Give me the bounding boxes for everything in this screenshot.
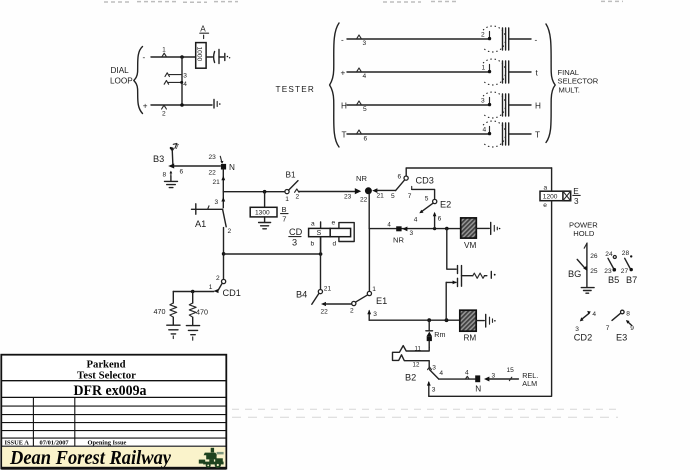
svg-text:3: 3 [432, 387, 436, 394]
svg-text:5: 5 [363, 106, 367, 113]
vertical from NR down to wire B [368, 194, 370, 228]
contact B7 [621, 250, 637, 285]
svg-text:B7: B7 [626, 275, 637, 285]
svg-text:6: 6 [398, 174, 402, 181]
svg-text:07/01/2007: 07/01/2007 [40, 440, 70, 447]
arrow 21 up [221, 176, 225, 181]
svg-text:H: H [535, 102, 541, 111]
svg-text:22: 22 [321, 309, 329, 316]
svg-text:4: 4 [414, 217, 418, 224]
wire REL ALM to N [484, 377, 489, 382]
svg-text:T: T [535, 131, 540, 140]
svg-text:1: 1 [162, 47, 166, 54]
svg-text:23: 23 [209, 154, 217, 161]
wire B2 to N [439, 378, 475, 380]
cable break squiggle [393, 346, 430, 369]
svg-text:+: + [341, 69, 346, 78]
svg-text:7: 7 [282, 215, 286, 224]
svg-text:1: 1 [209, 284, 213, 291]
svg-text:CD2: CD2 [574, 333, 592, 343]
svg-text:3: 3 [432, 365, 436, 372]
resistor 470 left [154, 292, 181, 339]
wire dial loop bottom (terminal 2) [151, 104, 212, 106]
svg-text:1: 1 [372, 286, 376, 293]
svg-text:E3: E3 [616, 333, 627, 343]
resistor 470 right [186, 292, 208, 341]
node N (top) [221, 164, 226, 170]
svg-text:MULT.: MULT. [559, 86, 580, 95]
svg-text:B4: B4 [296, 290, 307, 300]
node junction top [180, 55, 184, 59]
svg-text:T: T [342, 131, 347, 140]
faint cropped text along top edge [104, 0, 623, 3]
svg-text:4: 4 [439, 370, 443, 377]
relay coil 1200 (E/3) [540, 187, 580, 209]
terminal bars bottom right [213, 100, 215, 109]
svg-text:4: 4 [465, 370, 469, 377]
wire D (to RM) [369, 319, 460, 321]
contact 3 [165, 73, 182, 77]
svg-text:3: 3 [574, 197, 579, 206]
wire B1 to NR [299, 191, 355, 193]
brace tester right [546, 24, 555, 143]
svg-text:e: e [543, 202, 547, 209]
contact E3 [606, 310, 635, 342]
svg-text:B5: B5 [608, 275, 619, 285]
svg-text:Test Selector: Test Selector [77, 370, 136, 382]
svg-text:CD: CD [289, 227, 303, 237]
contact NR (upper) [344, 174, 384, 204]
svg-text:d: d [333, 241, 337, 248]
svg-text:-: - [143, 53, 146, 62]
contact B4 [296, 237, 331, 316]
node N (bottom) [475, 375, 480, 382]
rail to CD1 [223, 228, 225, 280]
contact BG [568, 243, 598, 293]
svg-text:DIAL: DIAL [111, 66, 130, 75]
wire C (rail to coil b) [224, 253, 321, 255]
contact CD3 [396, 174, 434, 191]
svg-text:1300: 1300 [255, 210, 270, 217]
battery for RM [476, 314, 495, 327]
svg-text:E1: E1 [376, 296, 387, 306]
contact B3 [153, 142, 184, 179]
svg-text:7: 7 [175, 142, 179, 151]
svg-text:A1: A1 [195, 219, 206, 229]
svg-text:NR: NR [393, 236, 404, 245]
svg-text:a: a [311, 221, 315, 228]
svg-text:DFR ex009a: DFR ex009a [74, 383, 148, 399]
resistor 1300 [250, 192, 277, 229]
title block frame [1, 355, 226, 469]
contact CD1 [209, 275, 241, 298]
svg-text:1200: 1200 [543, 194, 558, 201]
svg-text:1: 1 [285, 196, 289, 203]
wire NR to CD3 [377, 189, 396, 191]
svg-text:3: 3 [481, 98, 485, 105]
capacitor C [206, 56, 212, 58]
svg-text:3: 3 [292, 238, 297, 248]
svg-text:4: 4 [592, 311, 596, 318]
right rail top [551, 168, 553, 191]
svg-text:B3: B3 [153, 154, 164, 164]
contact B5 [604, 251, 619, 285]
svg-text:LOOP: LOOP [110, 77, 133, 86]
svg-text:NR: NR [356, 174, 367, 183]
svg-text:470: 470 [154, 307, 166, 316]
svg-text:3: 3 [373, 311, 377, 318]
svg-text:A: A [200, 25, 206, 34]
svg-text:3: 3 [410, 230, 414, 237]
relay RM [460, 310, 477, 342]
svg-text:6: 6 [438, 216, 442, 223]
svg-text:3: 3 [363, 40, 367, 47]
svg-text:Opening Issue: Opening Issue [88, 440, 127, 447]
svg-text:Dean Forest Railway: Dean Forest Railway [9, 447, 171, 469]
contact E2 with feed 7 [408, 186, 451, 228]
svg-text:27: 27 [621, 268, 629, 275]
svg-text:N: N [229, 163, 235, 172]
svg-text:2: 2 [350, 308, 354, 315]
contact E1 [350, 229, 387, 315]
svg-text:4: 4 [483, 127, 487, 134]
svg-text:470: 470 [196, 308, 208, 317]
yellow banner [2, 447, 225, 467]
svg-text:3: 3 [183, 73, 187, 80]
svg-text:ALM: ALM [522, 379, 537, 388]
svg-text:e: e [332, 220, 336, 227]
svg-text:23: 23 [344, 194, 352, 201]
svg-text:3: 3 [492, 373, 496, 380]
right rail down and bottom wire [429, 201, 552, 396]
svg-text:HOLD: HOLD [573, 229, 595, 238]
tester row 4 (T, contact 6, wiper 4) [342, 121, 541, 147]
tester row 2 (+, contact 4, wiper 1) [341, 59, 539, 85]
svg-text:24: 24 [605, 251, 613, 258]
svg-text:E2: E2 [440, 200, 451, 210]
relay coil CD/3 [289, 220, 354, 255]
svg-text:N: N [475, 385, 481, 394]
svg-text:26: 26 [590, 253, 598, 260]
svg-text:12: 12 [413, 362, 420, 369]
svg-text:S: S [317, 228, 322, 237]
battery for VM [476, 222, 500, 234]
wire B3 to N [174, 165, 220, 167]
svg-text:B: B [282, 205, 287, 214]
svg-text:15: 15 [507, 367, 515, 374]
wire A (feed from rail to B1) [223, 191, 285, 193]
wire B4 to E1 [321, 302, 326, 306]
svg-text:B1: B1 [286, 171, 296, 180]
svg-text:21: 21 [324, 286, 332, 293]
svg-text:7: 7 [606, 325, 610, 332]
svg-text:2: 2 [162, 111, 166, 118]
svg-text:8: 8 [163, 172, 167, 179]
svg-text:4: 4 [387, 222, 391, 229]
resistor 1000 [196, 43, 206, 69]
svg-text:CD3: CD3 [416, 176, 434, 186]
feed arrow from bottom rail [428, 383, 430, 397]
bottom black strip [1, 467, 226, 470]
relay VM [461, 218, 477, 250]
svg-text:-: - [341, 36, 344, 45]
tester row 3 (H, contact 5, wiper 3) [341, 92, 541, 118]
svg-text:5: 5 [391, 193, 395, 200]
contact B1 [285, 171, 300, 204]
svg-text:8: 8 [626, 311, 630, 318]
svg-text:25: 25 [590, 268, 598, 275]
svg-text:1: 1 [482, 65, 486, 72]
rectifier Rm [426, 320, 446, 347]
faint scan lines [232, 409, 622, 417]
contact B2 [405, 365, 443, 383]
ground under B3 [170, 176, 172, 181]
svg-text:4: 4 [183, 81, 187, 88]
svg-text:1000: 1000 [195, 47, 202, 62]
svg-text:5: 5 [425, 196, 429, 203]
svg-text:2: 2 [296, 194, 300, 201]
tester row 1 (-, contact 3, wiper 2) [341, 26, 538, 52]
loco logo [199, 448, 224, 468]
svg-text:b: b [311, 241, 315, 248]
svg-text:-: - [535, 36, 538, 45]
svg-text:Rm: Rm [434, 330, 445, 339]
svg-text:SELECTOR: SELECTOR [558, 77, 599, 86]
wire CD1 to resistors [173, 291, 214, 293]
svg-text:ISSUE A: ISSUE A [5, 440, 30, 447]
svg-text:E: E [573, 187, 579, 196]
svg-text:28: 28 [622, 250, 630, 257]
feed arrow 3 under E1 [368, 311, 370, 320]
svg-text:B2: B2 [405, 373, 416, 383]
svg-text:7: 7 [408, 193, 412, 200]
svg-text:4: 4 [363, 73, 367, 80]
contact tick 2 [162, 105, 167, 109]
svg-text:CD1: CD1 [223, 288, 241, 298]
svg-text:23: 23 [604, 268, 612, 275]
contact CD2 [574, 311, 597, 343]
svg-text:2: 2 [228, 228, 232, 235]
transistor (rectifier element) [446, 229, 495, 321]
svg-text:H: H [341, 102, 347, 111]
svg-text:3: 3 [215, 199, 219, 206]
svg-text:RM: RM [464, 334, 477, 343]
svg-text:22: 22 [209, 170, 217, 177]
wire vertical dial loop [181, 57, 183, 105]
svg-text:2: 2 [481, 32, 485, 39]
brace dial loop [134, 47, 143, 114]
rail below node [222, 170, 224, 208]
svg-text:6: 6 [180, 169, 184, 176]
svg-text:+: + [143, 102, 148, 111]
svg-text:TESTER: TESTER [276, 85, 316, 94]
contact tick 1 [162, 53, 167, 57]
wire dial loop top (terminal 1) [151, 56, 196, 58]
svg-text:21: 21 [377, 193, 385, 200]
contact A1 [192, 204, 232, 235]
brace tester left [330, 23, 339, 147]
svg-text:21: 21 [213, 179, 221, 186]
contact 4 [164, 81, 182, 85]
wire CD3 up to top rail [406, 168, 551, 176]
wire B (NR to VM) [369, 228, 460, 230]
svg-text:VM: VM [464, 241, 476, 250]
svg-text:9: 9 [630, 325, 634, 332]
stray mark .7 [170, 147, 172, 149]
arrow 3 up [221, 197, 225, 202]
svg-text:22: 22 [360, 197, 368, 204]
svg-text:BG: BG [568, 269, 581, 279]
svg-text:6: 6 [364, 136, 368, 143]
contact NR (lower) [387, 222, 413, 245]
svg-text:2: 2 [216, 275, 220, 282]
